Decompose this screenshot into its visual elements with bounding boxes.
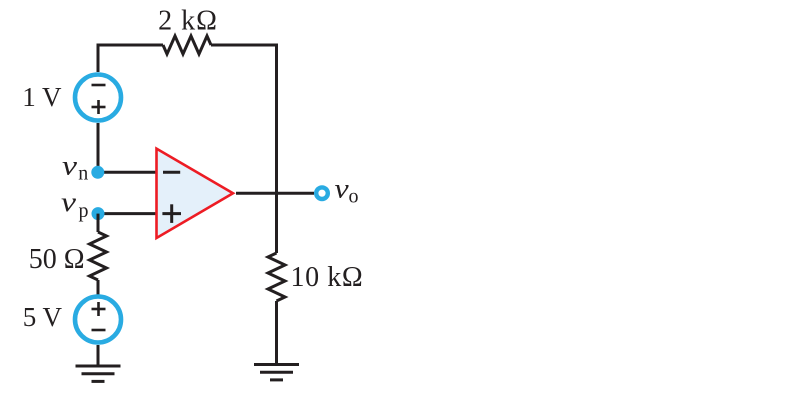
wire: top feedback wire right segment [211,45,277,253]
wire: top feedback wire left segment [98,45,163,72]
wire: R2 to V2 [97,280,100,297]
wire: R3 to ground 2 [275,301,278,365]
svg-text:10 kΩ: 10 kΩ [291,262,364,293]
V1 minus sign [92,84,106,87]
V2 plus sign [92,308,106,311]
terminal vo open circle [316,187,328,199]
svg-text:v: v [61,187,76,217]
voltage source V1 1V circle [75,75,121,121]
wire: op-amp output to vo terminal [236,192,314,195]
op-amp plus sign [162,212,181,215]
svg-text:5 V: 5 V [23,302,63,332]
resistor R2 50 Ohm zigzag [90,232,107,280]
wire: vp to op-amp noninverting input [98,212,158,215]
resistor R3 10 kOhm zigzag [268,253,285,301]
resistor R1 2 kOhm zigzag [163,36,211,54]
svg-text:50 Ω: 50 Ω [29,244,85,275]
V2 minus sign [92,329,106,332]
op-amp U1 triangle [157,149,234,238]
wire: V1 to node vn [97,123,100,172]
ground 1 [76,366,121,381]
op-amp minus sign [163,171,180,174]
svg-text:v: v [62,151,77,181]
wire: vp down to R2 [97,214,100,232]
V1 plus sign [92,106,106,109]
node vn dot [91,166,104,179]
svg-text:n: n [78,163,88,185]
ground 2 [254,365,299,380]
svg-text:2 kΩ: 2 kΩ [158,6,218,37]
svg-text:o: o [349,186,359,208]
wire: V2 to ground [97,345,100,366]
svg-text:1 V: 1 V [22,82,62,112]
svg-text:v: v [335,175,350,204]
voltage source V2 5V circle [75,297,121,343]
wire: vn to op-amp inverting input [98,171,158,174]
svg-text:p: p [79,200,89,222]
node vp dot [92,207,105,220]
